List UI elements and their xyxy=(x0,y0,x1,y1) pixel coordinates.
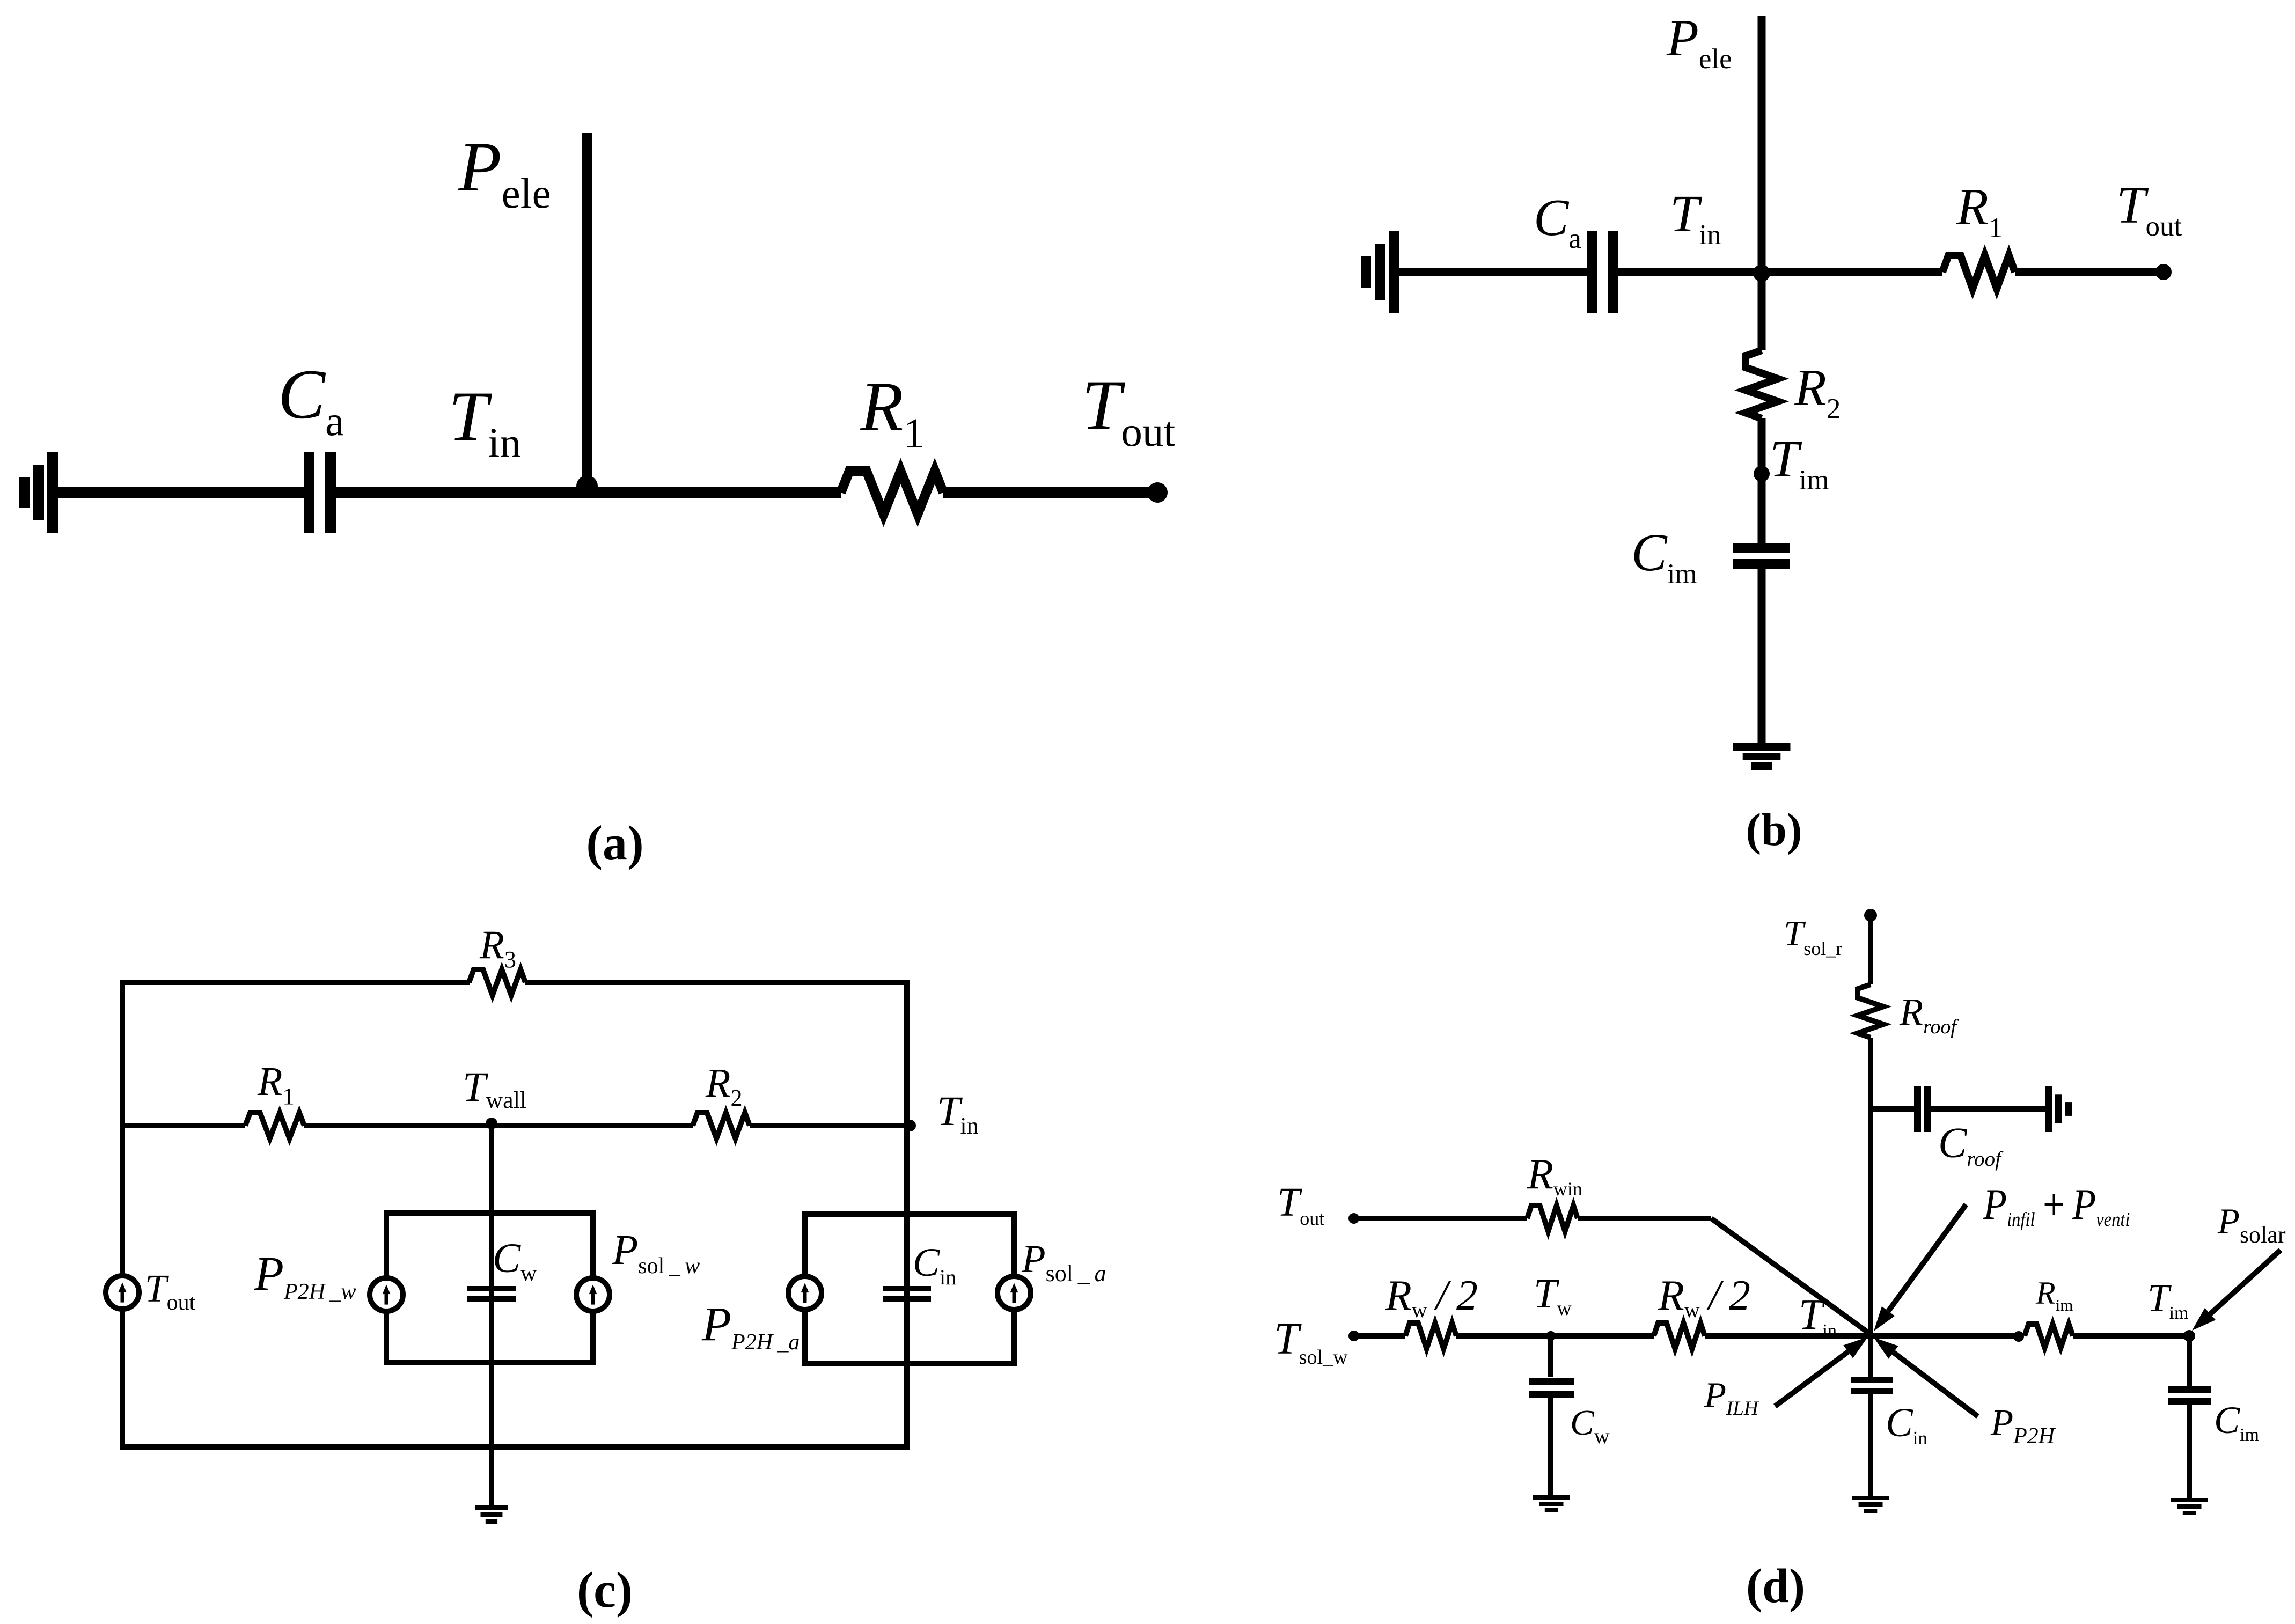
node Tim dot (panel b) xyxy=(1754,466,1770,482)
wire a1 (ground to Ca) xyxy=(57,487,304,498)
capacitor Cim (panel b) xyxy=(1733,543,1790,569)
label R3 (panel c) xyxy=(479,923,516,973)
wire b1 (ground to Ca) xyxy=(1398,268,1587,276)
source P_sol_w circle (panel c) xyxy=(576,1278,610,1311)
ground GND-b-left (sideways) xyxy=(1361,231,1399,313)
wire a2 (Ca to R1) xyxy=(336,487,841,498)
resistor R1 (panel a) xyxy=(841,471,943,514)
wire d4 (Croof to ground) xyxy=(1931,1106,2045,1112)
ground GND-Cin (panel d) xyxy=(1852,1496,1889,1513)
svg-text:(a): (a) xyxy=(586,815,643,870)
capacitor Croof (panel d) xyxy=(1914,1086,1931,1132)
capacitor Cin (panel d) xyxy=(1851,1377,1893,1394)
capacitor Ca (panel a) xyxy=(304,452,336,533)
source P_P2H_a circle (panel c) xyxy=(788,1276,822,1310)
label Tout (panel c) xyxy=(145,1267,196,1315)
source Tout circle (panel c) xyxy=(106,1276,139,1309)
resistor Rroof (panel d) xyxy=(1858,984,1883,1038)
wire d2 (Rroof to junction) xyxy=(1868,1038,1873,1334)
wire d11 (Rw/2 through Tin junction to Rim) xyxy=(1705,1333,2019,1339)
label P_sol_w (panel c) xyxy=(612,1227,700,1278)
wire d5 (Tout to Rwin) xyxy=(1354,1216,1527,1221)
resistor R1 (panel b) xyxy=(1942,255,2015,289)
label Tout (panel a) xyxy=(1082,365,1175,455)
arrow P_solar (panel d) xyxy=(2192,1250,2281,1331)
caption (d) xyxy=(1746,1560,1805,1613)
ground GND-a (left, sideways) xyxy=(19,452,58,533)
label P_P2H_a (panel c) xyxy=(701,1298,800,1355)
svg-text:(b): (b) xyxy=(1746,804,1802,855)
capacitor Cin (panel c) xyxy=(883,1286,931,1302)
svg-text:Rw / 2: Rw / 2 xyxy=(1658,1272,1750,1322)
resistor R2 (panel b) xyxy=(1746,350,1778,418)
label Rroof (panel d) xyxy=(1899,990,1959,1038)
node Tsol_w dot (panel d) xyxy=(1348,1331,1359,1341)
svg-text:(d): (d) xyxy=(1746,1560,1805,1613)
resistor R1 (panel c) xyxy=(245,1113,304,1138)
resistor Rim (panel d) xyxy=(2025,1324,2073,1348)
label Tout (panel d) xyxy=(1277,1180,1324,1229)
ground GND-c (below Twall line) xyxy=(475,1505,508,1524)
arrow P_ILH (panel d) xyxy=(1775,1337,1868,1406)
wire c-mid-2 (R1 to R2) xyxy=(304,1123,693,1128)
label Tim (panel b) xyxy=(1770,430,1829,496)
label Rim (panel d) xyxy=(2035,1275,2073,1314)
ground GND-b-bottom xyxy=(1733,743,1791,770)
label Tin (panel d) xyxy=(1799,1291,1837,1341)
resistor R3 (panel c) xyxy=(469,969,525,995)
arrow P_infil+P_venti (panel d) xyxy=(1874,1204,1966,1331)
label Cw (panel c) xyxy=(493,1234,537,1286)
wire d14 (Cw to ground) xyxy=(1548,1398,1553,1497)
wire b4 (R1 to Tout) xyxy=(2015,268,2164,276)
label Tw (panel d) xyxy=(1534,1270,1572,1320)
label P_solar (panel d) xyxy=(2217,1201,2286,1248)
wire c-box-a outline xyxy=(805,1214,1014,1363)
label Tim (panel d) xyxy=(2147,1276,2189,1323)
label Cin (panel d) xyxy=(1886,1400,1927,1449)
wire b6 (R2 to Tim) xyxy=(1758,418,1766,474)
capacitor Ca (panel b) xyxy=(1587,231,1618,313)
arrow P_P2H (panel d) xyxy=(1874,1338,1978,1416)
svg-text:(c): (c) xyxy=(577,1562,633,1618)
label Pele (panel a) xyxy=(458,127,551,217)
ground GND-Cim (panel d) xyxy=(2171,1498,2208,1515)
resistor Rw/2 second (panel d) xyxy=(1654,1323,1705,1349)
resistor Rw/2 first (panel d) xyxy=(1405,1323,1456,1349)
caption (c) xyxy=(577,1562,633,1618)
wire d18 (Cim to ground) xyxy=(2187,1403,2192,1498)
node dot before Rim (panel d) xyxy=(2013,1331,2024,1342)
node Tin dot (panel c) xyxy=(904,1120,916,1131)
wire c-right edge xyxy=(904,982,910,1447)
wire d6 (Rwin to bend) xyxy=(1578,1216,1711,1221)
resistor R2 (panel c) xyxy=(693,1113,750,1138)
wire b3 (junction to R1) xyxy=(1762,268,1942,276)
label Croof (panel d) xyxy=(1938,1120,2004,1171)
node Tout dot (panel d) xyxy=(1348,1213,1359,1224)
label R1 (panel b) xyxy=(1956,178,2003,244)
label Tsol_w (panel d) xyxy=(1274,1314,1348,1369)
node Tin junction dot (panel a) xyxy=(576,475,598,497)
wire d17 (Tim down to Cim) xyxy=(2187,1336,2192,1387)
wire b5 (junction down to R2) xyxy=(1758,272,1766,350)
wire d16 (Cin to ground) xyxy=(1868,1394,1873,1496)
label Cin (panel c) xyxy=(913,1240,956,1289)
node Tin junction dot (panel b) xyxy=(1753,264,1770,282)
label Ca (panel a) xyxy=(278,355,344,445)
label Tin (panel b) xyxy=(1670,185,1721,251)
node Tout terminal dot (panel b) xyxy=(2155,264,2172,280)
wire b7 (Tim to Cim) xyxy=(1758,474,1766,543)
label P_infil+P_venti (panel d) xyxy=(1983,1180,2130,1231)
wire Pele feed (panel b) xyxy=(1758,16,1766,272)
node Twall dot (panel c) xyxy=(486,1118,497,1129)
node Tw dot (panel d) xyxy=(1546,1331,1556,1341)
capacitor Cim (panel d) xyxy=(2168,1386,2211,1405)
wire c-mid-3 (R2 to right edge) xyxy=(750,1123,907,1128)
wire c-Twall vertical xyxy=(489,1126,494,1505)
caption (a) xyxy=(586,815,643,870)
wire d8 (Tsol_w to Rw/2) xyxy=(1354,1333,1405,1339)
wire b8 (Cim to ground) xyxy=(1758,569,1766,745)
node Tsol_r dot (panel d) xyxy=(1864,909,1877,922)
wire d1 (Tsol_r to Rroof) xyxy=(1868,915,1873,984)
label Pele (panel b) xyxy=(1666,9,1732,75)
node Tim dot (panel d) xyxy=(2183,1330,2195,1342)
capacitor Cw (panel c) xyxy=(467,1286,516,1302)
label Twall (panel c) xyxy=(463,1063,526,1113)
wire c-left edge xyxy=(120,982,125,1447)
caption (b) xyxy=(1746,804,1802,855)
wire b2 (Ca to junction) xyxy=(1618,268,1762,276)
label P_P2H_w (panel c) xyxy=(254,1247,356,1304)
wire c-box-w outline xyxy=(386,1213,593,1362)
wire d12 (Rim to Tim) xyxy=(2073,1333,2189,1339)
label P_ILH (panel d) xyxy=(1704,1375,1759,1420)
label Tsol_r (panel d) xyxy=(1784,914,1842,959)
wire c-top-right (R3 to right edge) xyxy=(525,980,910,985)
label Cw (panel d) xyxy=(1570,1403,1610,1448)
label Rw/2 first (panel d) xyxy=(1385,1272,1478,1322)
label R1 (panel c) xyxy=(257,1059,294,1109)
resistor Rwin (panel d) xyxy=(1527,1206,1578,1231)
label R2 (panel c) xyxy=(705,1061,742,1111)
label Rw/2 second (panel d) xyxy=(1658,1272,1750,1322)
label Tout (panel b) xyxy=(2116,177,2182,242)
label P_P2H (panel d) xyxy=(1990,1402,2056,1449)
ground GND-roof (sideways right) xyxy=(2045,1086,2072,1132)
node Tout terminal dot (panel a) xyxy=(1147,482,1168,503)
label Cim (panel d) xyxy=(2214,1399,2259,1445)
label Ca (panel b) xyxy=(1534,189,1581,254)
label R2 (panel b) xyxy=(1794,359,1841,424)
source P_sol_a circle (panel c) xyxy=(998,1276,1031,1310)
ground GND-Cw (panel d) xyxy=(1533,1495,1570,1512)
wire c-top-left (to R3) xyxy=(120,980,470,985)
wire d9 (Rw/2 to Tw) xyxy=(1456,1333,1551,1339)
wire Pele feed (panel a) xyxy=(582,133,592,493)
label Rwin (panel d) xyxy=(1527,1151,1582,1200)
wire d15 (Tin junction down to Cin) xyxy=(1868,1334,1873,1377)
wire a3 (R1 to Tout) xyxy=(943,487,1157,498)
label R1 (panel a) xyxy=(860,367,925,457)
capacitor Cw (panel d) xyxy=(1529,1378,1574,1398)
source P_P2H_w circle (panel c) xyxy=(370,1278,403,1311)
label Cim (panel b) xyxy=(1631,523,1697,590)
label Tin (panel c) xyxy=(937,1087,979,1139)
wire d3 (branch to Croof) xyxy=(1871,1106,1914,1112)
wire c-bottom edge xyxy=(120,1444,910,1450)
wire d7 (diagonal to Tin junction) xyxy=(1711,1218,1871,1334)
svg-text:Rw / 2: Rw / 2 xyxy=(1385,1272,1478,1322)
wire c-mid-1 (left edge to R1) xyxy=(122,1123,245,1128)
wire d13 (Tw down to Cw) xyxy=(1548,1336,1553,1377)
label P_sol_a (panel c) xyxy=(1021,1237,1106,1287)
label Tin (panel a) xyxy=(449,377,521,467)
wire d10 (Tw to Rw/2) xyxy=(1551,1333,1654,1339)
